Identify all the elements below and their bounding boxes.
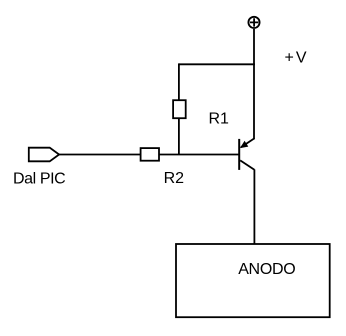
resistor R1 bbox=[173, 100, 186, 118]
svg-text:R1: R1 bbox=[209, 111, 230, 128]
svg-text:Dal PIC: Dal PIC bbox=[13, 170, 65, 187]
power symbol +V bbox=[248, 17, 259, 28]
wire: tag to R2 bbox=[59, 154, 141, 156]
wire: R2 to base bbox=[159, 154, 239, 156]
svg-text:ANODO: ANODO bbox=[238, 261, 295, 278]
wire: collector down to anode box bbox=[253, 169, 255, 244]
box ANODO bbox=[176, 244, 330, 317]
transistor Q1 emitter bbox=[241, 138, 255, 147]
svg-text:+V: +V bbox=[285, 50, 309, 67]
transistor Q1 collector bbox=[240, 160, 254, 169]
resistor R2 bbox=[141, 148, 159, 161]
port tag Dal PIC bbox=[29, 148, 59, 162]
svg-text:R2: R2 bbox=[164, 170, 185, 187]
wire: +V vertical drop bbox=[253, 29, 255, 139]
wire: R1 bottom lead bbox=[178, 118, 180, 154]
transistor Q1 PNP base bar bbox=[238, 139, 240, 170]
wire: top horizontal bbox=[179, 63, 255, 65]
wire: R1 top lead bbox=[178, 63, 180, 100]
transistor Q1 emitter arrow bbox=[240, 141, 248, 148]
